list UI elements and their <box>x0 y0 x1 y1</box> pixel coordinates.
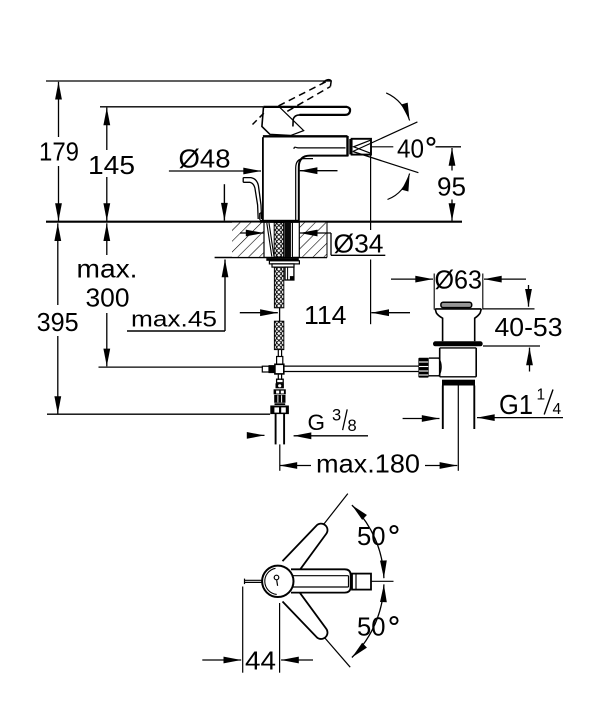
svg-text:max.180: max.180 <box>316 449 420 479</box>
body top cap seam <box>263 135 348 137</box>
ribbed adapter <box>274 395 285 403</box>
svg-text:40: 40 <box>397 134 424 164</box>
check valve <box>274 383 286 405</box>
svg-text:114: 114 <box>304 300 347 330</box>
mounting hardware below slab <box>266 258 299 280</box>
pop-up rod (horizontal, to waste knob) <box>284 366 419 371</box>
svg-text:1: 1 <box>537 387 546 404</box>
svg-text:Ø34: Ø34 <box>334 229 384 259</box>
label Ø48 <box>169 170 338 172</box>
coupling nut <box>442 380 475 386</box>
svg-text:50: 50 <box>357 612 386 642</box>
dim 179 <box>58 82 60 221</box>
hose end fittings <box>262 350 284 383</box>
dim 145 <box>106 108 108 221</box>
50 deg texts <box>357 521 398 642</box>
faucet shank in hole: wedge <box>267 223 274 257</box>
aerator tip <box>352 574 371 590</box>
body circle <box>262 566 293 597</box>
countertop surface line <box>46 221 462 223</box>
faucet body side view <box>260 136 348 223</box>
bottom ref line 395 <box>47 413 270 415</box>
svg-text:Ø48: Ø48 <box>179 144 231 174</box>
side port <box>429 357 440 359</box>
svg-text:95: 95 <box>437 172 466 202</box>
svg-text:max.: max. <box>77 254 138 284</box>
G3/8 pipe <box>276 413 285 470</box>
pop-up control rod behind faucet <box>243 178 261 219</box>
spout arm right edge <box>346 136 348 156</box>
hose centerline extension <box>279 444 281 470</box>
label Ø34 <box>240 233 385 255</box>
right centerline <box>372 580 394 582</box>
spout arm top view <box>291 569 371 592</box>
dim 44 <box>202 587 313 673</box>
seal ring <box>433 341 483 346</box>
svg-text:max.45: max.45 <box>131 307 217 332</box>
countertop slab hatch <box>232 223 327 258</box>
svg-text:G1: G1 <box>499 389 533 420</box>
base plate <box>260 220 299 223</box>
hose core line (break) <box>279 308 281 321</box>
ref line max300 bottom <box>99 366 264 368</box>
dim max180 <box>280 465 458 467</box>
rotated lever upper <box>283 519 333 573</box>
top ref line 145 <box>100 106 263 108</box>
dim 95 <box>436 147 462 221</box>
body <box>440 347 477 349</box>
40 deg rays <box>353 93 419 200</box>
label G3/8 <box>248 434 368 436</box>
stub below tee <box>277 374 279 380</box>
tee fitting at pop-up rod <box>275 364 284 374</box>
ext lines Ø63 <box>433 274 435 310</box>
aerator <box>349 139 371 155</box>
svg-text:300: 300 <box>86 283 130 313</box>
left stub rod <box>245 579 264 585</box>
rotated lever lower <box>283 589 333 643</box>
reference lines <box>46 81 462 414</box>
waste pop-up assembly <box>418 274 482 471</box>
svg-text:395: 395 <box>37 307 79 337</box>
braided hose lower segment <box>274 321 283 349</box>
flange <box>435 308 481 310</box>
dim Ø63 <box>391 278 526 280</box>
svg-text:4: 4 <box>553 401 562 418</box>
braided hose segment in hole <box>274 223 293 257</box>
leader to 40 text <box>371 146 393 148</box>
label max45 <box>127 184 225 331</box>
label G1 1/4 <box>403 417 563 420</box>
dark sleeve <box>284 223 293 257</box>
handle raised position (dashed) <box>253 80 332 125</box>
cap <box>441 302 472 307</box>
40 deg text <box>397 134 435 164</box>
dim max300 <box>106 223 108 366</box>
svg-text:8: 8 <box>348 417 357 435</box>
top ref line 179 <box>46 80 331 82</box>
body left edge <box>262 137 264 220</box>
50 deg arcs <box>352 505 384 657</box>
50 deg diagonals <box>320 494 350 668</box>
svg-text:Ø63: Ø63 <box>435 265 483 295</box>
spout axis extension line <box>370 151 372 231</box>
svg-text:3: 3 <box>332 407 341 425</box>
svg-text:44: 44 <box>245 646 276 676</box>
tailpipe <box>442 386 444 430</box>
knurled knob <box>418 358 428 378</box>
svg-text:145: 145 <box>88 150 135 180</box>
waste centerline <box>457 386 459 471</box>
arc arrows <box>386 93 409 121</box>
inner top line of spout arm <box>294 147 346 149</box>
G3/8 hex nut <box>270 406 289 415</box>
svg-text:G: G <box>308 410 326 435</box>
handle (lowered, solid) <box>262 106 350 135</box>
dim 114 <box>240 151 410 325</box>
svg-text:50: 50 <box>357 521 386 551</box>
slab bottom line <box>215 257 327 259</box>
dim 395 <box>57 223 59 414</box>
svg-text:179: 179 <box>39 137 79 167</box>
spout arm bottom + outer fillet + column right edge <box>299 156 348 221</box>
braided hose below counter, upper segment <box>274 267 283 308</box>
inner fillet line <box>296 159 313 221</box>
dim 40-53 <box>483 285 540 372</box>
pop-up rod guide box <box>285 267 294 280</box>
svg-text:40-53: 40-53 <box>495 312 563 342</box>
